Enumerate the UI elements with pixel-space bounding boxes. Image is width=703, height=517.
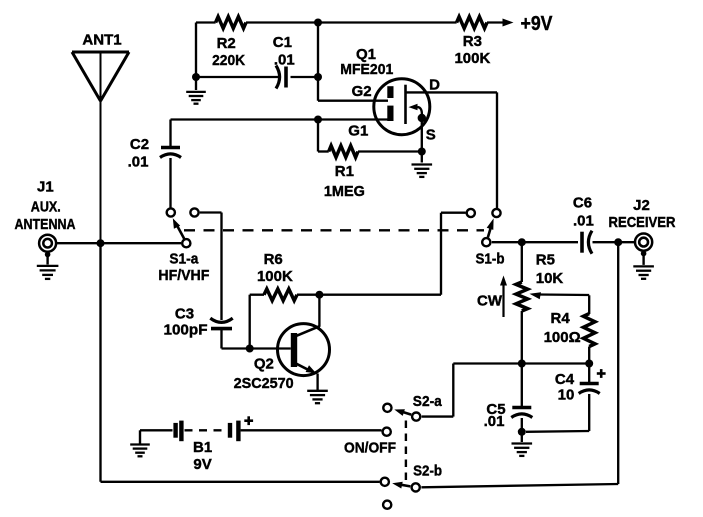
svg-text:.01: .01	[484, 413, 505, 430]
svg-text:Q2: Q2	[254, 356, 274, 373]
svg-text:AUX.: AUX.	[31, 199, 61, 216]
svg-text:S2-a: S2-a	[413, 393, 443, 410]
svg-text:100K: 100K	[257, 268, 293, 285]
svg-text:RECEIVER: RECEIVER	[609, 214, 676, 231]
svg-text:D: D	[429, 77, 440, 94]
svg-text:S: S	[426, 127, 436, 144]
svg-text:.01: .01	[274, 52, 295, 69]
svg-text:R1: R1	[335, 163, 354, 180]
svg-text:+9V: +9V	[521, 13, 554, 35]
svg-text:B1: B1	[193, 439, 212, 456]
svg-text:G2: G2	[352, 83, 372, 100]
svg-text:R5: R5	[536, 251, 555, 268]
svg-text:100pF: 100pF	[164, 322, 208, 339]
svg-text:R4: R4	[551, 310, 571, 327]
svg-text:.01: .01	[128, 154, 149, 171]
svg-text:C6: C6	[573, 194, 592, 211]
svg-text:R3: R3	[463, 33, 482, 50]
svg-text:J1: J1	[37, 179, 54, 196]
svg-text:9V: 9V	[193, 456, 211, 473]
svg-text:1MEG: 1MEG	[324, 183, 365, 200]
svg-text:MFE201: MFE201	[340, 61, 393, 78]
svg-text:C4: C4	[555, 371, 575, 388]
svg-text:ANTENNA: ANTENNA	[15, 216, 76, 233]
svg-text:100K: 100K	[454, 50, 490, 67]
svg-text:2SC2570: 2SC2570	[234, 375, 294, 392]
svg-text:C2: C2	[130, 136, 149, 153]
svg-text:CW: CW	[477, 292, 503, 309]
svg-text:R6: R6	[264, 251, 283, 268]
svg-text:R2: R2	[217, 35, 236, 52]
svg-text:10K: 10K	[536, 270, 564, 287]
svg-text:S2-b: S2-b	[413, 463, 442, 480]
svg-text:100Ω: 100Ω	[544, 329, 581, 346]
svg-text:HF/VHF: HF/VHF	[158, 267, 209, 284]
svg-text:ON/OFF: ON/OFF	[344, 440, 396, 457]
svg-text:220K: 220K	[212, 52, 245, 69]
svg-text:S1-a: S1-a	[169, 251, 199, 268]
svg-text:J2: J2	[633, 197, 650, 214]
svg-text:ANT1: ANT1	[82, 32, 121, 49]
svg-text:G1: G1	[348, 123, 368, 140]
svg-text:10: 10	[558, 387, 575, 404]
svg-text:C1: C1	[273, 34, 292, 51]
svg-text:.01: .01	[573, 213, 594, 230]
svg-text:C3: C3	[175, 306, 194, 323]
svg-text:S1-b: S1-b	[476, 251, 505, 268]
